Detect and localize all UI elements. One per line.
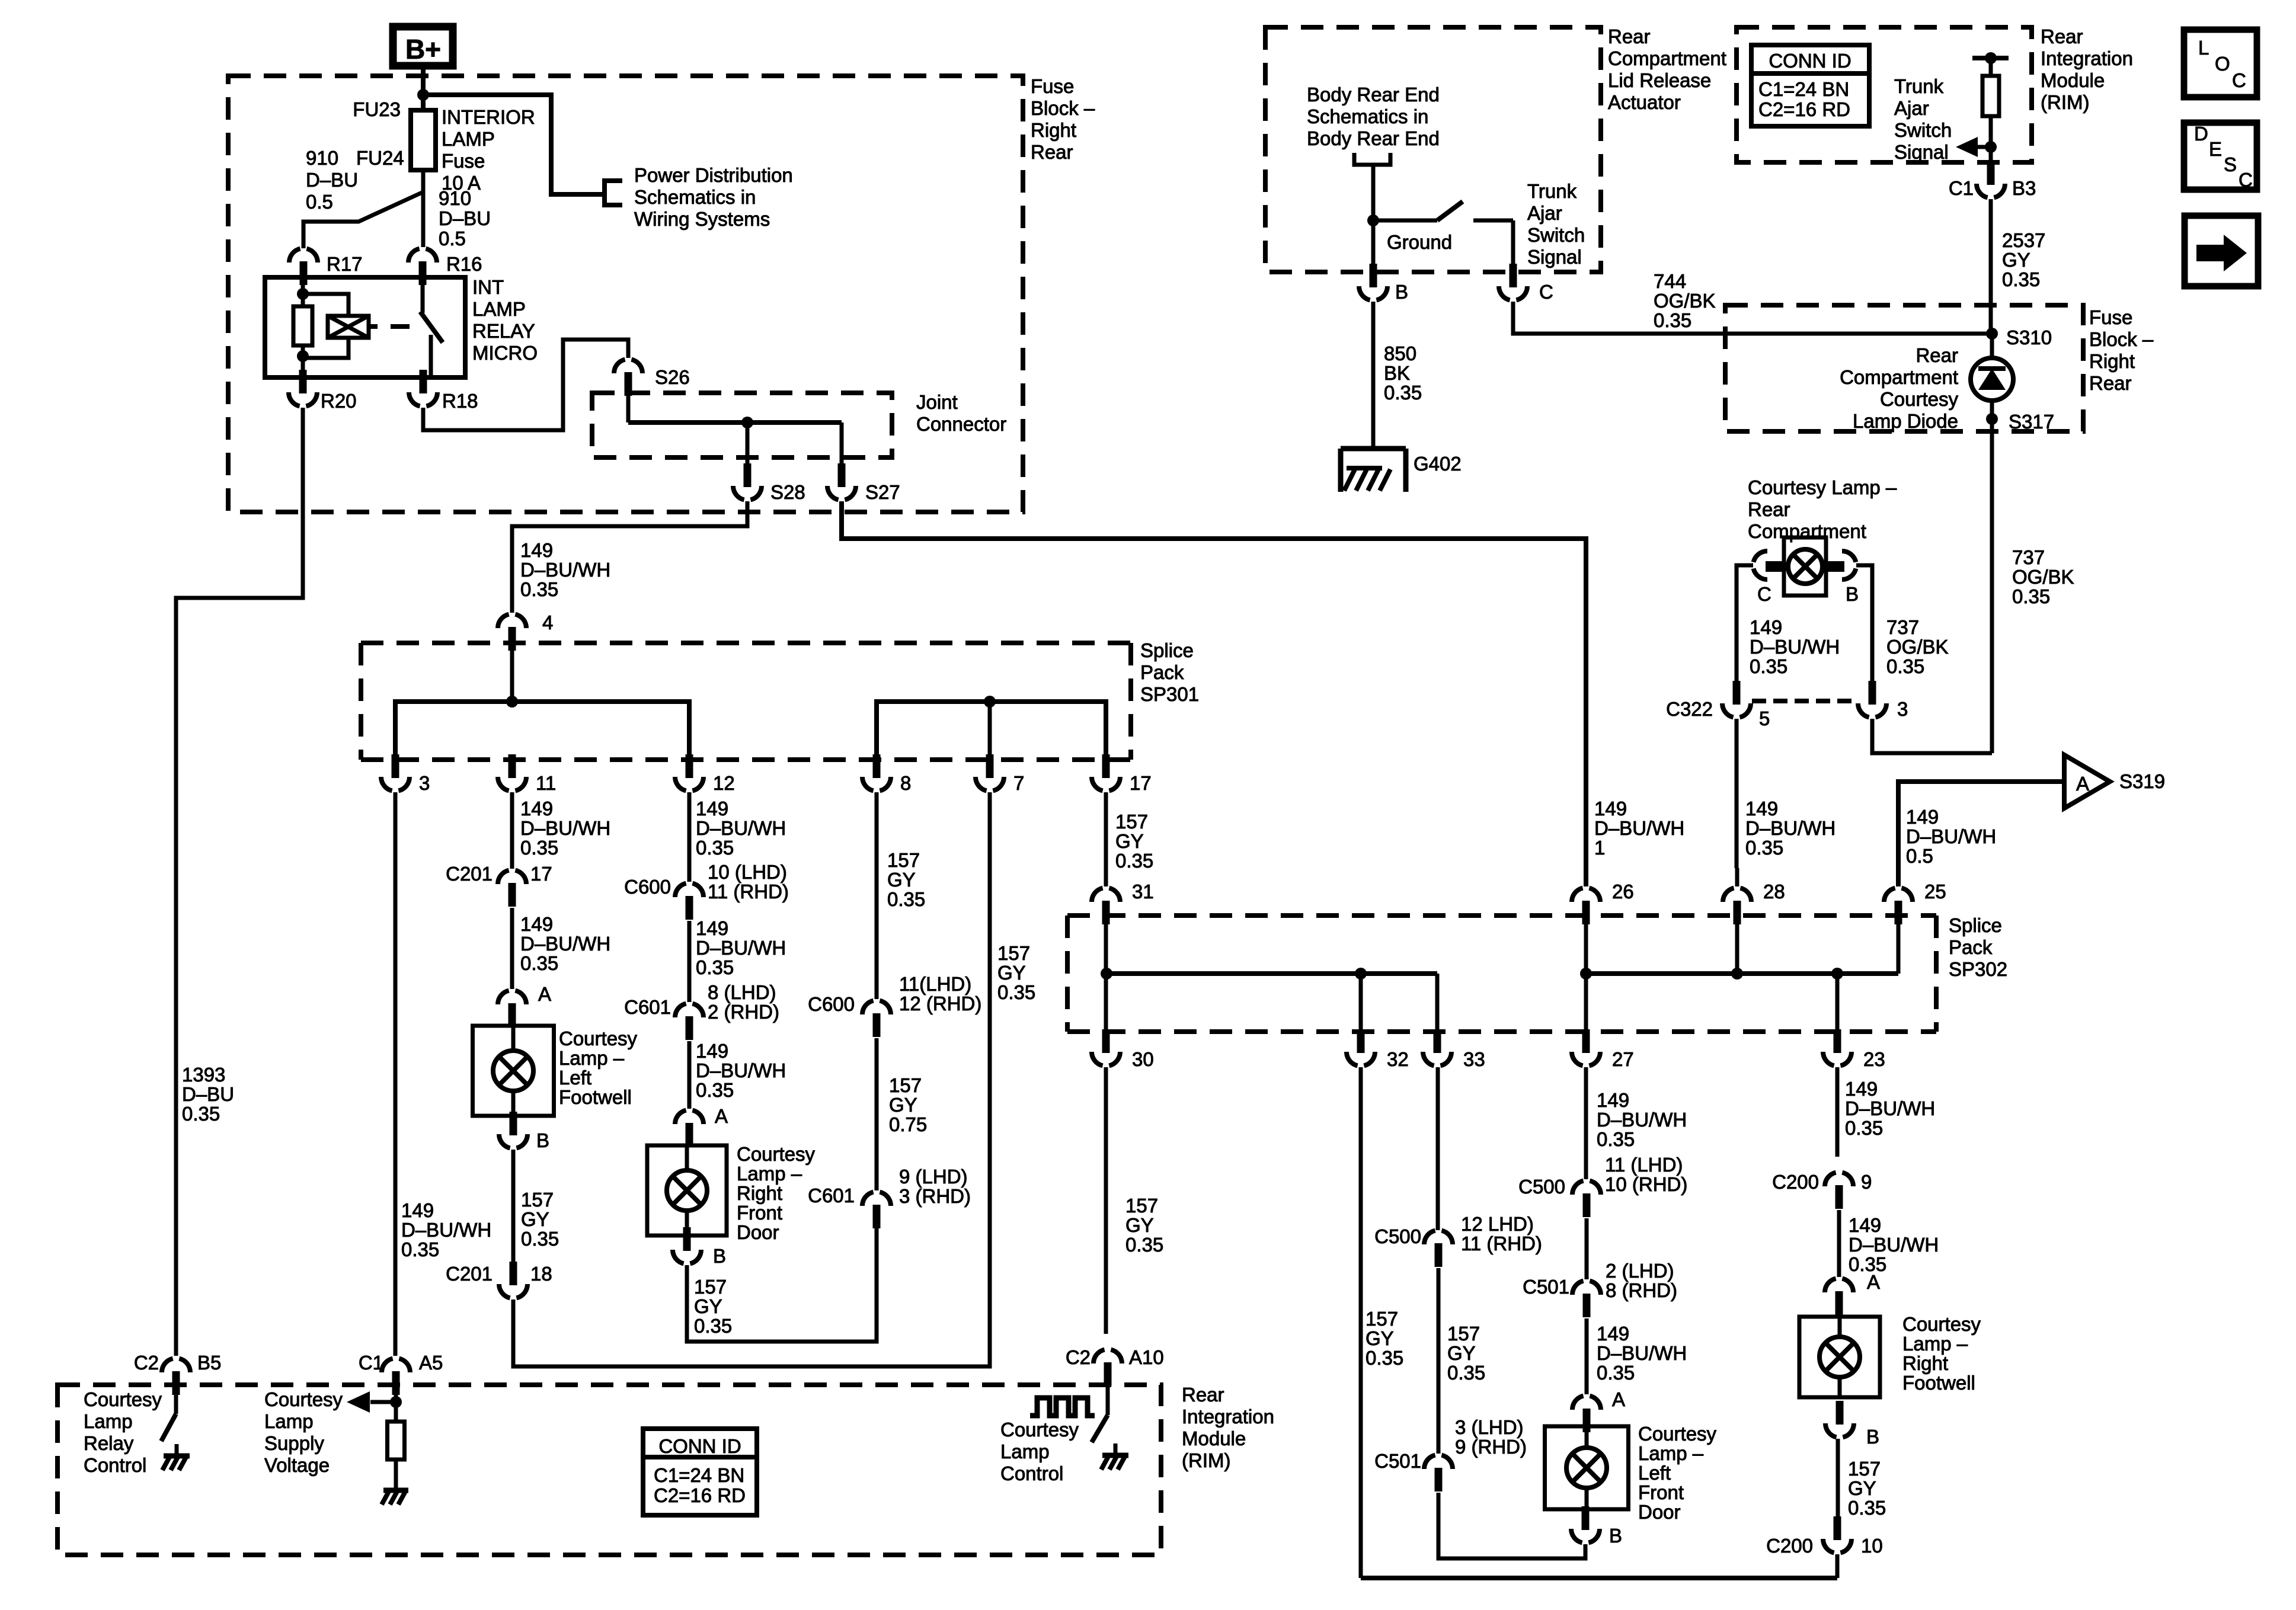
svg-text:GY: GY <box>521 1208 549 1230</box>
svg-text:0.35: 0.35 <box>1848 1497 1886 1519</box>
svg-text:A: A <box>538 983 551 1005</box>
svg-text:C: C <box>2232 69 2246 91</box>
svg-text:Pack: Pack <box>1949 936 1993 958</box>
svg-text:R17: R17 <box>327 253 363 275</box>
svg-text:3: 3 <box>1897 698 1908 720</box>
svg-text:11 (RHD): 11 (RHD) <box>708 881 789 902</box>
svg-text:Module: Module <box>1182 1427 1246 1449</box>
svg-text:28: 28 <box>1763 881 1785 902</box>
svg-text:BK: BK <box>1384 362 1410 384</box>
svg-text:149: 149 <box>1849 1214 1881 1236</box>
svg-text:C501: C501 <box>1374 1450 1421 1472</box>
svg-text:30: 30 <box>1132 1048 1154 1070</box>
svg-text:149: 149 <box>1594 798 1627 820</box>
svg-text:11: 11 <box>536 772 556 794</box>
svg-text:2 (RHD): 2 (RHD) <box>708 1001 779 1023</box>
svg-text:149: 149 <box>520 539 553 561</box>
svg-text:C: C <box>1757 583 1771 605</box>
svg-text:157: 157 <box>694 1276 727 1298</box>
svg-text:Connector: Connector <box>916 413 1006 435</box>
svg-text:A5: A5 <box>419 1352 443 1374</box>
svg-text:149: 149 <box>520 913 553 935</box>
svg-text:157: 157 <box>1447 1323 1480 1345</box>
svg-text:O: O <box>2215 53 2230 75</box>
svg-text:0.5: 0.5 <box>439 228 466 249</box>
svg-text:A: A <box>715 1105 728 1127</box>
svg-text:Lamp –: Lamp – <box>1638 1442 1704 1464</box>
svg-text:S319: S319 <box>2119 770 2165 792</box>
svg-text:D: D <box>2194 123 2208 145</box>
svg-text:SP302: SP302 <box>1949 958 2007 980</box>
svg-text:157: 157 <box>887 849 920 871</box>
svg-text:3: 3 <box>419 772 430 794</box>
svg-text:Door: Door <box>1638 1501 1681 1523</box>
svg-text:0.35: 0.35 <box>1366 1347 1403 1369</box>
svg-text:Lamp Diode: Lamp Diode <box>1853 410 1958 432</box>
svg-text:C601: C601 <box>808 1185 855 1206</box>
svg-text:C201: C201 <box>446 863 493 885</box>
svg-text:A: A <box>1867 1271 1880 1293</box>
svg-text:Relay: Relay <box>84 1432 134 1454</box>
svg-text:0.35: 0.35 <box>887 888 925 910</box>
svg-text:B5: B5 <box>197 1352 221 1374</box>
svg-text:Body Rear End: Body Rear End <box>1307 127 1440 149</box>
svg-text:Courtesy: Courtesy <box>264 1388 343 1410</box>
svg-text:Wiring Systems: Wiring Systems <box>634 208 770 230</box>
svg-text:C2=16 RD: C2=16 RD <box>654 1484 746 1506</box>
svg-text:SP301: SP301 <box>1140 683 1199 705</box>
svg-text:S310: S310 <box>2006 327 2052 348</box>
svg-text:Body Rear End: Body Rear End <box>1307 84 1440 105</box>
svg-text:149: 149 <box>1750 616 1782 638</box>
svg-text:Courtesy: Courtesy <box>737 1143 816 1165</box>
svg-text:OG/BK: OG/BK <box>1886 636 1949 658</box>
svg-text:Control: Control <box>1000 1462 1063 1484</box>
svg-text:26: 26 <box>1612 881 1634 902</box>
svg-text:Schematics in: Schematics in <box>634 186 756 208</box>
svg-text:Fuse: Fuse <box>2089 306 2132 328</box>
svg-text:LAMP: LAMP <box>472 298 526 320</box>
svg-text:GY: GY <box>2002 249 2030 271</box>
svg-text:0.35: 0.35 <box>521 1228 559 1250</box>
svg-text:5: 5 <box>1759 708 1770 729</box>
svg-text:B+: B+ <box>405 34 441 65</box>
svg-text:Left: Left <box>1638 1462 1671 1484</box>
svg-text:C1: C1 <box>1949 177 1974 199</box>
svg-text:737: 737 <box>2012 546 2045 568</box>
svg-text:D–BU/WH: D–BU/WH <box>1597 1342 1687 1364</box>
svg-text:D–BU/WH: D–BU/WH <box>1906 825 1996 847</box>
svg-text:C2=16 RD: C2=16 RD <box>1758 98 1850 120</box>
svg-text:0.75: 0.75 <box>889 1113 927 1135</box>
svg-text:10: 10 <box>1861 1535 1883 1557</box>
svg-text:4: 4 <box>542 612 553 633</box>
svg-text:Right: Right <box>737 1182 782 1204</box>
svg-text:B: B <box>1609 1525 1622 1547</box>
svg-text:MICRO: MICRO <box>472 342 538 364</box>
svg-text:A: A <box>2076 773 2089 795</box>
svg-text:D–BU/WH: D–BU/WH <box>696 937 786 959</box>
svg-text:0.35: 0.35 <box>997 981 1035 1003</box>
svg-text:0.35: 0.35 <box>1597 1362 1635 1384</box>
svg-text:149: 149 <box>1906 806 1939 828</box>
svg-text:2537: 2537 <box>2002 229 2045 251</box>
svg-text:0.35: 0.35 <box>1597 1128 1635 1150</box>
svg-text:R20: R20 <box>321 390 357 412</box>
svg-text:B: B <box>713 1245 726 1267</box>
svg-text:Door: Door <box>737 1221 779 1243</box>
svg-text:Integration: Integration <box>1182 1406 1274 1427</box>
svg-text:Lamp –: Lamp – <box>737 1163 802 1185</box>
svg-text:B: B <box>536 1129 549 1151</box>
svg-text:Switch: Switch <box>1527 224 1585 246</box>
svg-text:C600: C600 <box>808 993 855 1015</box>
svg-text:Footwell: Footwell <box>1902 1372 1975 1394</box>
svg-text:D–BU/WH: D–BU/WH <box>1849 1234 1939 1256</box>
svg-text:D–BU: D–BU <box>306 169 358 191</box>
svg-text:D–BU/WH: D–BU/WH <box>1845 1097 1935 1119</box>
svg-text:17: 17 <box>1130 772 1152 794</box>
svg-text:10 (RHD): 10 (RHD) <box>1605 1173 1687 1195</box>
svg-text:B: B <box>1846 583 1859 605</box>
svg-text:D–BU/WH: D–BU/WH <box>520 559 610 581</box>
svg-text:Block –: Block – <box>1031 97 1095 119</box>
svg-text:D–BU/WH: D–BU/WH <box>1750 636 1840 658</box>
svg-text:2 (LHD): 2 (LHD) <box>1606 1260 1674 1282</box>
svg-text:Courtesy: Courtesy <box>559 1028 638 1049</box>
svg-text:Rear: Rear <box>1916 344 1958 366</box>
svg-text:149: 149 <box>696 1040 728 1062</box>
svg-text:A10: A10 <box>1129 1346 1164 1368</box>
svg-text:Joint: Joint <box>916 391 958 413</box>
svg-text:0.35: 0.35 <box>696 837 734 859</box>
svg-text:157: 157 <box>997 942 1030 964</box>
svg-text:8 (LHD): 8 (LHD) <box>708 981 776 1003</box>
svg-text:23: 23 <box>1863 1048 1885 1070</box>
svg-text:12: 12 <box>713 772 735 794</box>
svg-text:1393: 1393 <box>182 1064 225 1086</box>
svg-text:C500: C500 <box>1374 1225 1421 1247</box>
svg-text:Pack: Pack <box>1140 661 1184 683</box>
svg-text:C1=24 BN: C1=24 BN <box>1758 78 1849 100</box>
svg-text:149: 149 <box>1745 798 1778 820</box>
svg-text:GY: GY <box>997 962 1026 984</box>
svg-text:0.35: 0.35 <box>1447 1362 1485 1384</box>
svg-text:0.35: 0.35 <box>1845 1117 1883 1139</box>
svg-text:C601: C601 <box>624 996 671 1018</box>
svg-text:D–BU/WH: D–BU/WH <box>520 933 610 955</box>
svg-text:Rear: Rear <box>2089 372 2132 394</box>
svg-text:157: 157 <box>889 1074 922 1096</box>
svg-text:Courtesy: Courtesy <box>1880 388 1959 410</box>
svg-text:Signal: Signal <box>1894 141 1949 163</box>
svg-text:157: 157 <box>1115 811 1148 833</box>
svg-text:GY: GY <box>1125 1214 1154 1236</box>
svg-text:3 (LHD): 3 (LHD) <box>1455 1416 1524 1438</box>
svg-text:S26: S26 <box>655 366 690 388</box>
svg-text:D–BU/WH: D–BU/WH <box>1594 817 1684 839</box>
svg-text:Front: Front <box>1638 1481 1684 1503</box>
svg-text:D–BU/WH: D–BU/WH <box>401 1219 491 1241</box>
svg-text:Block –: Block – <box>2089 328 2154 350</box>
svg-text:Courtesy Lamp –: Courtesy Lamp – <box>1748 476 1897 498</box>
svg-text:Lamp –: Lamp – <box>559 1047 625 1069</box>
svg-text:D–BU/WH: D–BU/WH <box>696 817 786 839</box>
svg-text:1: 1 <box>1594 837 1605 859</box>
svg-text:FU23: FU23 <box>353 98 401 120</box>
svg-text:GY: GY <box>887 869 916 891</box>
svg-text:0.35: 0.35 <box>2012 585 2050 607</box>
svg-text:C200: C200 <box>1772 1171 1819 1193</box>
svg-text:910: 910 <box>439 187 471 209</box>
svg-text:Schematics in: Schematics in <box>1307 105 1428 127</box>
svg-text:9 (LHD): 9 (LHD) <box>899 1166 968 1188</box>
svg-text:8 (RHD): 8 (RHD) <box>1606 1279 1677 1301</box>
svg-text:D–BU/WH: D–BU/WH <box>1597 1109 1687 1131</box>
svg-text:CONN ID: CONN ID <box>1769 50 1851 72</box>
svg-text:G402: G402 <box>1414 453 1462 475</box>
svg-text:31: 31 <box>1132 881 1154 902</box>
svg-text:OG/BK: OG/BK <box>1654 290 1716 312</box>
svg-text:10 (LHD): 10 (LHD) <box>708 861 787 883</box>
svg-text:Fuse: Fuse <box>442 150 485 172</box>
svg-text:Left: Left <box>559 1067 591 1089</box>
svg-text:0.5: 0.5 <box>1906 845 1933 867</box>
svg-text:A: A <box>1612 1388 1625 1410</box>
svg-text:Courtesy: Courtesy <box>1000 1419 1079 1441</box>
svg-text:9: 9 <box>1861 1171 1872 1193</box>
svg-text:11 (LHD): 11 (LHD) <box>1605 1154 1683 1176</box>
svg-text:RELAY: RELAY <box>472 320 535 342</box>
svg-text:0.35: 0.35 <box>696 1079 734 1101</box>
svg-text:Courtesy: Courtesy <box>1638 1423 1717 1445</box>
svg-text:0.35: 0.35 <box>520 952 558 974</box>
svg-text:Lamp: Lamp <box>1000 1441 1050 1462</box>
svg-text:GY: GY <box>694 1295 722 1317</box>
svg-text:Module: Module <box>2041 69 2105 91</box>
svg-text:GY: GY <box>1366 1327 1394 1349</box>
svg-text:Signal: Signal <box>1527 246 1582 268</box>
svg-text:Lamp –: Lamp – <box>1902 1333 1968 1355</box>
svg-text:12 (RHD): 12 (RHD) <box>899 993 981 1014</box>
svg-text:B: B <box>1395 281 1408 303</box>
svg-text:S: S <box>2224 153 2237 175</box>
svg-text:Footwell: Footwell <box>559 1086 632 1108</box>
svg-text:7: 7 <box>1013 772 1024 794</box>
svg-text:25: 25 <box>1924 881 1946 902</box>
svg-text:9 (RHD): 9 (RHD) <box>1455 1436 1527 1458</box>
svg-text:11(LHD): 11(LHD) <box>899 973 971 995</box>
svg-text:INTERIOR: INTERIOR <box>442 106 535 128</box>
svg-text:Right: Right <box>1031 119 1076 141</box>
svg-text:C: C <box>1539 281 1553 303</box>
svg-text:Rear: Rear <box>1182 1384 1224 1406</box>
svg-text:Courtesy: Courtesy <box>84 1388 162 1410</box>
svg-text:S28: S28 <box>770 481 805 503</box>
svg-text:C201: C201 <box>446 1263 493 1285</box>
svg-text:Compartment: Compartment <box>1608 47 1726 69</box>
svg-text:C600: C600 <box>624 876 671 898</box>
svg-text:Actuator: Actuator <box>1608 91 1681 113</box>
svg-text:Voltage: Voltage <box>264 1454 330 1476</box>
svg-text:Courtesy: Courtesy <box>1902 1313 1981 1335</box>
svg-text:27: 27 <box>1612 1048 1634 1070</box>
svg-text:Ajar: Ajar <box>1894 97 1929 119</box>
svg-text:LAMP: LAMP <box>442 128 495 150</box>
svg-text:157: 157 <box>1848 1458 1881 1480</box>
svg-text:17: 17 <box>530 863 552 885</box>
svg-text:L: L <box>2198 37 2209 59</box>
svg-text:D–BU: D–BU <box>182 1083 234 1105</box>
svg-text:157: 157 <box>1125 1195 1158 1217</box>
svg-text:0.35: 0.35 <box>1384 382 1422 404</box>
svg-text:Integration: Integration <box>2041 47 2133 69</box>
svg-text:149: 149 <box>401 1199 434 1221</box>
svg-text:R16: R16 <box>446 253 482 275</box>
svg-text:D–BU/WH: D–BU/WH <box>520 817 610 839</box>
svg-text:Lamp: Lamp <box>264 1410 314 1432</box>
svg-text:GY: GY <box>1848 1477 1876 1499</box>
svg-text:149: 149 <box>1597 1089 1629 1111</box>
svg-text:Rear: Rear <box>2041 25 2083 47</box>
svg-text:C2: C2 <box>1066 1346 1091 1368</box>
svg-text:S27: S27 <box>865 481 900 503</box>
svg-text:Rear: Rear <box>1748 498 1790 520</box>
svg-text:FU24: FU24 <box>356 147 404 169</box>
svg-text:0.35: 0.35 <box>1115 850 1153 872</box>
svg-text:11 (RHD): 11 (RHD) <box>1461 1233 1542 1254</box>
svg-text:8: 8 <box>900 772 911 794</box>
svg-text:737: 737 <box>1886 616 1919 638</box>
svg-text:850: 850 <box>1384 343 1416 364</box>
svg-text:(RIM): (RIM) <box>2041 91 2089 113</box>
svg-text:OG/BK: OG/BK <box>2012 566 2074 588</box>
svg-text:GY: GY <box>889 1094 917 1116</box>
svg-text:Right: Right <box>2089 350 2135 372</box>
svg-text:Right: Right <box>1902 1352 1948 1374</box>
svg-text:0.35: 0.35 <box>1654 309 1691 331</box>
svg-text:0.35: 0.35 <box>1886 655 1924 677</box>
svg-text:0.35: 0.35 <box>1750 655 1787 677</box>
svg-text:Trunk: Trunk <box>1527 180 1577 202</box>
svg-text:B3: B3 <box>2012 177 2036 199</box>
svg-text:E: E <box>2209 138 2222 160</box>
svg-text:0.35: 0.35 <box>1745 837 1783 859</box>
svg-text:157: 157 <box>521 1189 554 1211</box>
svg-text:157: 157 <box>1366 1308 1398 1330</box>
svg-text:32: 32 <box>1387 1048 1409 1070</box>
svg-text:Compartment: Compartment <box>1840 366 1958 388</box>
svg-text:0.35: 0.35 <box>694 1315 732 1337</box>
svg-text:INT: INT <box>472 276 504 298</box>
svg-text:C501: C501 <box>1523 1276 1569 1298</box>
svg-text:GY: GY <box>1115 830 1144 852</box>
svg-text:0.35: 0.35 <box>520 578 558 600</box>
svg-text:C322: C322 <box>1666 698 1713 720</box>
svg-text:910: 910 <box>306 147 338 169</box>
svg-text:D–BU: D–BU <box>439 207 491 229</box>
svg-text:Ground: Ground <box>1387 231 1452 253</box>
svg-text:149: 149 <box>1845 1078 1878 1100</box>
svg-text:744: 744 <box>1654 270 1686 292</box>
svg-text:Lid Release: Lid Release <box>1608 69 1711 91</box>
svg-text:0.35: 0.35 <box>182 1103 220 1125</box>
svg-text:149: 149 <box>696 917 728 939</box>
svg-text:0.35: 0.35 <box>520 837 558 859</box>
svg-text:18: 18 <box>530 1263 552 1285</box>
svg-text:C1: C1 <box>359 1352 383 1374</box>
svg-text:Fuse: Fuse <box>1031 75 1074 97</box>
svg-text:B: B <box>1866 1426 1879 1448</box>
svg-text:Front: Front <box>737 1202 782 1224</box>
svg-text:149: 149 <box>696 798 728 820</box>
svg-text:Control: Control <box>84 1454 146 1476</box>
svg-text:Supply: Supply <box>264 1432 324 1454</box>
svg-text:(RIM): (RIM) <box>1182 1449 1230 1471</box>
svg-text:3 (RHD): 3 (RHD) <box>899 1185 971 1207</box>
svg-text:GY: GY <box>1447 1342 1476 1364</box>
svg-text:Rear: Rear <box>1608 25 1651 47</box>
svg-text:Switch: Switch <box>1894 119 1952 141</box>
svg-text:33: 33 <box>1463 1048 1485 1070</box>
svg-text:Power Distribution: Power Distribution <box>634 164 793 186</box>
svg-text:C: C <box>2239 169 2253 191</box>
svg-text:0.35: 0.35 <box>696 956 734 978</box>
svg-text:C200: C200 <box>1766 1535 1813 1557</box>
svg-text:Rear: Rear <box>1031 141 1073 163</box>
svg-text:0.5: 0.5 <box>306 191 333 213</box>
svg-text:Ajar: Ajar <box>1527 202 1562 224</box>
svg-text:CONN ID: CONN ID <box>658 1435 741 1457</box>
svg-text:149: 149 <box>1597 1323 1629 1345</box>
svg-text:0.35: 0.35 <box>2002 268 2040 290</box>
svg-text:Lamp: Lamp <box>84 1410 133 1432</box>
svg-text:12 LHD): 12 LHD) <box>1461 1213 1534 1235</box>
svg-text:149: 149 <box>520 798 553 820</box>
svg-text:S317: S317 <box>2009 411 2054 433</box>
svg-text:Trunk: Trunk <box>1894 75 1944 97</box>
svg-text:D–BU/WH: D–BU/WH <box>1745 817 1835 839</box>
svg-text:C1=24 BN: C1=24 BN <box>654 1464 744 1486</box>
svg-text:0.35: 0.35 <box>401 1238 439 1260</box>
svg-text:C2: C2 <box>134 1352 159 1374</box>
svg-text:Splice: Splice <box>1140 639 1194 661</box>
svg-text:R18: R18 <box>442 390 478 412</box>
svg-text:D–BU/WH: D–BU/WH <box>696 1060 786 1081</box>
svg-text:0.35: 0.35 <box>1125 1234 1163 1256</box>
svg-text:Splice: Splice <box>1949 914 2002 936</box>
svg-text:C500: C500 <box>1518 1176 1565 1198</box>
